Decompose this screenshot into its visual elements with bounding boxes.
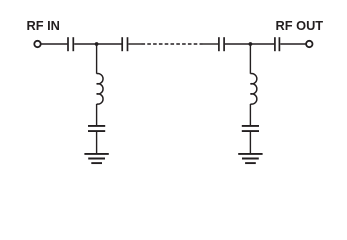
capacitor C5 [88,126,105,131]
wire [249,104,251,126]
wire dashed continuation [142,43,203,45]
ground GND2 [238,154,262,163]
wire [97,43,122,45]
capacitor C2 [122,37,127,51]
capacitor C3 [219,37,224,51]
wire [225,43,250,45]
wire [74,43,96,45]
node junction J1 [95,42,99,46]
capacitor C4 [275,37,280,51]
wire [249,131,251,154]
wire [128,43,141,45]
svg-text:RF IN: RF IN [27,18,60,33]
capacitor C1 [68,37,73,51]
svg-text:RF OUT: RF OUT [276,18,324,33]
wire [96,104,98,126]
terminal RF OUT [306,41,312,47]
inductor L1 [97,74,103,105]
wire shunt left down [96,44,98,74]
wire [96,131,98,154]
wire [203,43,219,45]
inductor L2 [250,74,256,105]
terminal RF IN [34,41,40,47]
node junction J2 [249,42,253,46]
ground GND1 [84,154,108,163]
capacitor C6 [242,126,259,131]
wire [250,43,274,45]
wire [41,43,68,45]
wire shunt right down [249,44,251,74]
wire [280,43,306,45]
